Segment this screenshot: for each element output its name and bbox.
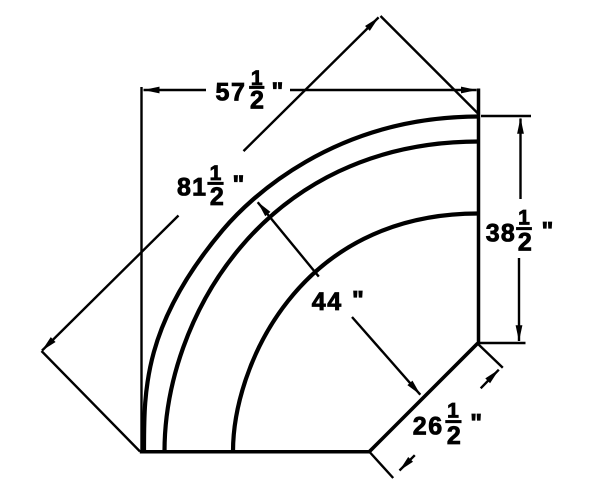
middle arc [165, 142, 480, 452]
bottom edge [140, 450, 370, 454]
svg-text:": " [233, 171, 245, 199]
extension line left (for 57 1/2 dim) [140, 87, 142, 452]
svg-text:2: 2 [210, 183, 224, 211]
extension line top (for 38 1/2 dim) [481, 115, 531, 117]
arrowhead 57 1/2 right [461, 87, 477, 94]
arrowhead 44 lower (on diagonal edge) [407, 381, 420, 395]
svg-text:": " [470, 410, 482, 438]
dim line 26 1/2 lower segment [400, 455, 415, 470]
arrowhead 44 upper (on outer arc) [258, 202, 271, 216]
dim line 38 1/2 lower segment [518, 258, 520, 341]
arrowhead 81 1/2 top (at apex) [365, 17, 379, 31]
svg-text:1: 1 [518, 207, 530, 230]
dim line 38 1/2 upper segment [519, 119, 521, 200]
extension line lower (for 26 1/2 dim) [370, 452, 394, 478]
dim line 81 1/2 lower segment [42, 216, 179, 351]
right edge of curved section [477, 89, 481, 345]
extension line upper (for 26 1/2 dim) [478, 344, 503, 368]
dim line 44 lower segment (to diagonal edge) [352, 317, 420, 395]
inner arc (radius 44) [233, 214, 478, 452]
arrowhead 26 1/2 upper [485, 370, 499, 384]
dim line 44 upper segment (to outer arc) [258, 202, 319, 276]
arrowhead 81 1/2 bottom-left [42, 337, 56, 351]
extension line bottom (for 38 1/2 dim) [480, 342, 526, 344]
svg-text:2: 2 [447, 422, 461, 450]
svg-text:1: 1 [210, 162, 222, 185]
arrowhead 57 1/2 left [144, 87, 160, 94]
dim line 81 1/2 upper segment [244, 17, 379, 151]
arrowhead 26 1/2 lower [399, 457, 413, 471]
svg-text:1: 1 [447, 400, 459, 423]
arrowhead 38 1/2 bottom [516, 325, 523, 341]
diagonal edge (bottom right) [369, 343, 478, 452]
dim line 26 1/2 upper segment [481, 370, 499, 389]
svg-text:2: 2 [250, 87, 264, 115]
extension line top-right (for 81 1/2 dim) [381, 16, 480, 115]
svg-text:": " [272, 78, 284, 106]
svg-text:": " [352, 287, 364, 315]
extension line bottom-left (for 81 1/2 dim) [42, 351, 141, 452]
dim line 57 1/2 right part [290, 89, 477, 91]
svg-text:": " [542, 218, 554, 246]
arrowhead 38 1/2 top [517, 118, 524, 134]
svg-text:44: 44 [312, 288, 343, 316]
svg-text:81: 81 [177, 173, 207, 201]
svg-text:57: 57 [216, 78, 247, 106]
outer arc (radius 81 1/2) [144, 117, 479, 452]
svg-text:26: 26 [413, 413, 444, 441]
svg-text:38: 38 [486, 219, 516, 247]
svg-text:2: 2 [518, 228, 532, 256]
dim line 57 1/2 left part [144, 89, 207, 91]
